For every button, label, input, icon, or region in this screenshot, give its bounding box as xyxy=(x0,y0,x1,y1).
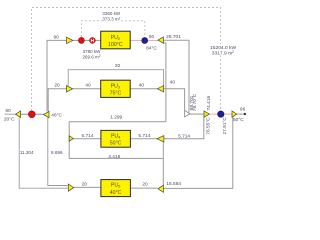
arrow collector hollow xyxy=(185,110,190,117)
svg-text:50°C: 50°C xyxy=(233,117,244,123)
arrow row3 in xyxy=(69,136,73,141)
svg-text:5.714: 5.714 xyxy=(178,133,190,139)
heater row1 xyxy=(78,37,84,43)
arrow row3 out xyxy=(157,136,164,142)
svg-text:373.3 m2: 373.3 m2 xyxy=(102,16,120,21)
svg-text:5.714: 5.714 xyxy=(138,133,150,139)
svg-text:40°C: 40°C xyxy=(110,190,122,196)
svg-text:PU2: PU2 xyxy=(111,35,121,41)
svg-text:96: 96 xyxy=(240,106,246,112)
wire row1 blue segment xyxy=(73,39,101,41)
wire row2 bypass 20 xyxy=(68,70,163,87)
svg-text:90: 90 xyxy=(5,108,11,114)
label 15204.0 kW xyxy=(207,44,239,56)
svg-text:PU3: PU3 xyxy=(111,83,121,89)
wire 28.701 down jog xyxy=(163,43,166,122)
wire row1 pink out xyxy=(130,40,158,42)
wire row1 left gray xyxy=(47,40,67,111)
cooler row1 xyxy=(142,38,148,44)
svg-text:40: 40 xyxy=(139,83,145,89)
svg-text:3317.9 m2: 3317.9 m2 xyxy=(212,50,234,56)
node end dot xyxy=(244,113,246,115)
wire branch to row4 lower xyxy=(19,118,68,189)
wire 15.584 return xyxy=(163,117,232,189)
svg-text:15.584: 15.584 xyxy=(166,181,181,187)
wire main inlet stub xyxy=(5,113,16,115)
cooler main xyxy=(218,111,224,117)
svg-text:50: 50 xyxy=(149,34,155,40)
svg-text:76.55°C: 76.55°C xyxy=(206,117,212,135)
svg-text:100°C: 100°C xyxy=(108,42,123,48)
arrow main 46C xyxy=(44,111,49,117)
arrow main mix1 xyxy=(204,111,209,117)
arrow row2 out xyxy=(157,86,163,92)
arrow row4 return xyxy=(158,185,164,192)
svg-text:75°C: 75°C xyxy=(110,90,122,96)
arrow row1 in xyxy=(67,37,73,43)
unit PU2 xyxy=(101,31,131,49)
arrow row1 out (28.701) xyxy=(158,37,164,43)
arrow main out xyxy=(232,111,237,117)
wire main right xyxy=(189,113,204,115)
arrow row4 in xyxy=(68,184,73,191)
wire row2 xyxy=(48,89,184,112)
svg-text:90: 90 xyxy=(54,34,60,40)
svg-text:11.304: 11.304 xyxy=(20,150,34,155)
unit PU5 xyxy=(101,180,130,197)
arrow main inlet xyxy=(16,111,21,118)
svg-text:46°C: 46°C xyxy=(51,112,62,118)
unit PU4 xyxy=(101,130,130,147)
svg-text:PU4: PU4 xyxy=(111,133,121,139)
wire row1 right to collector xyxy=(163,40,189,112)
svg-text:20°C: 20°C xyxy=(4,117,15,123)
svg-text:4.416: 4.416 xyxy=(108,154,120,160)
unit PU3 xyxy=(101,80,131,97)
svg-text:40: 40 xyxy=(85,83,91,89)
svg-text:1.299: 1.299 xyxy=(110,114,122,120)
wire row4 xyxy=(74,186,158,189)
arrow row2 in xyxy=(67,86,73,92)
wire branch to row4 upper xyxy=(48,118,69,186)
svg-text:20: 20 xyxy=(54,83,60,89)
svg-text:5.714: 5.714 xyxy=(81,133,93,139)
svg-text:20: 20 xyxy=(142,182,148,188)
svg-text:PU5: PU5 xyxy=(111,183,121,189)
svg-text:20: 20 xyxy=(115,63,121,69)
utility dashed loop top xyxy=(32,8,221,112)
svg-text:50°C: 50°C xyxy=(110,140,122,146)
svg-text:20: 20 xyxy=(82,182,88,188)
svg-text:78.70°C: 78.70°C xyxy=(192,93,198,111)
wire main left xyxy=(21,113,44,115)
heater H row1 xyxy=(90,38,96,44)
svg-text:28.701: 28.701 xyxy=(166,34,181,40)
label 373.3 m2 xyxy=(103,16,122,22)
heater main H1 xyxy=(28,111,35,118)
svg-text:84°C: 84°C xyxy=(146,45,157,51)
svg-text:74.416: 74.416 xyxy=(206,96,212,111)
wire row3 xyxy=(69,117,204,139)
svg-text:269.6 m2: 269.6 m2 xyxy=(82,54,100,59)
wire 1.299 xyxy=(69,122,166,159)
svg-text:27.91°C: 27.91°C xyxy=(222,117,228,135)
wire row3 triangle to row4 xyxy=(162,142,164,185)
svg-text:40: 40 xyxy=(170,79,176,85)
svg-text:8.696: 8.696 xyxy=(51,150,63,155)
